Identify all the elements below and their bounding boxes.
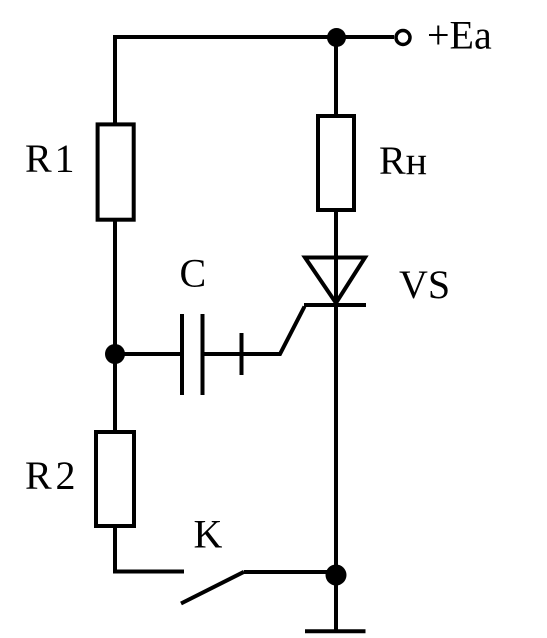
svg-text:R1: R1 — [25, 136, 75, 181]
svg-text:K: K — [194, 511, 223, 556]
svg-text:+Ea: +Ea — [427, 13, 492, 58]
svg-text:R2: R2 — [25, 453, 76, 498]
svg-text:Rн: Rн — [379, 138, 427, 183]
svg-text:VS: VS — [399, 262, 450, 307]
svg-text:C: C — [180, 251, 207, 296]
